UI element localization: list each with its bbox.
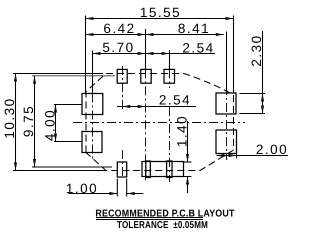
arrow 1.00 right	[127, 192, 135, 195]
dimension 1.00 right line	[127, 193, 144, 195]
dimension 10.30 bottom extension	[13, 170, 106, 172]
bottom narrow pad 2	[146, 161, 151, 178]
main horizontal centerline	[73, 122, 245, 124]
dimension 1.40 lower line	[187, 177, 189, 194]
arrow 5.70 left	[93, 52, 101, 55]
pad top-right	[216, 93, 236, 114]
arrow 15.55 left	[86, 17, 94, 20]
dimension 1.00 left line	[68, 193, 117, 195]
arrow 5.70 right	[138, 52, 146, 55]
column 1 lower centerline	[122, 150, 124, 177]
arrow 1.40 top	[186, 154, 189, 162]
dimension 15.55 left extension	[85, 16, 87, 94]
dimension 8.41 line	[146, 34, 224, 36]
pad bottom-left	[82, 132, 102, 153]
svg-text:2.54: 2.54	[182, 41, 214, 56]
dimension 4.00 top extension	[54, 104, 82, 106]
svg-text:4.00: 4.00	[42, 109, 57, 141]
column 3 centerline lower	[169, 107, 171, 182]
svg-text:1.40: 1.40	[175, 115, 190, 147]
dimension 9.75 bottom extension	[32, 166, 112, 168]
svg-text:5.70: 5.70	[102, 40, 134, 55]
dimension 5.70 line	[93, 53, 147, 55]
svg-text:8.41: 8.41	[178, 21, 210, 36]
arrow 4.00 bottom	[54, 134, 57, 142]
footer title underline rule 1	[96, 217, 203, 219]
column 1 centerline	[122, 66, 124, 110]
arrow 10.30 bottom	[14, 163, 17, 171]
column 3 centerline	[169, 69, 171, 88]
dimension 2.30 line	[262, 31, 264, 114]
arrow 2.54 mid left	[122, 105, 130, 108]
arrow 6.42 right	[138, 33, 146, 36]
svg-text:1.00: 1.00	[66, 181, 98, 196]
arrow 1.00 left	[109, 192, 117, 195]
svg-text:10.30: 10.30	[2, 97, 17, 138]
dimension 1.40 top extension	[184, 161, 192, 163]
dimension 2.54 top line	[146, 53, 215, 55]
dimension 15.55 line	[86, 18, 234, 20]
arrow 8.41 right	[216, 33, 224, 36]
right pads vertical centerline	[226, 86, 228, 160]
dimension 1.40 upper line	[187, 121, 189, 162]
dimension 9.75 line	[34, 76, 36, 167]
arrow 1.40 bottom	[186, 177, 189, 185]
top small pad 3	[164, 69, 175, 83]
svg-text:6.42: 6.42	[103, 21, 135, 36]
column 2 extension above	[145, 29, 147, 69]
dimension 2.54 middle line	[117, 106, 196, 108]
arrow 9.75 bottom	[33, 159, 36, 167]
arrow 2.30 top	[261, 94, 264, 102]
column 2 centerline	[145, 69, 147, 182]
svg-text:2.30: 2.30	[249, 34, 264, 66]
arrow 6.42 left	[86, 33, 94, 36]
top small pad 2	[141, 69, 151, 83]
bottom wide pad frame	[142, 162, 184, 177]
dimension 2.00 right extension	[236, 154, 238, 159]
arrow 2.00 right	[229, 154, 237, 157]
dimension 1.00 left extension	[116, 179, 118, 197]
dimension 4.00 bottom extension	[54, 141, 82, 143]
dimension 2.30 bottom extension	[240, 113, 266, 115]
dimension 10.30 top extension	[13, 73, 103, 75]
bottom narrow pad 3	[167, 161, 172, 178]
dimension 10.30 line	[15, 74, 17, 171]
arrow 2.00 left	[217, 154, 225, 157]
arrow 10.30 top	[14, 74, 17, 82]
dimension 8.41 right extension	[226, 32, 228, 94]
dimension 2.30 top extension	[240, 93, 266, 95]
footer title underline rule 2	[96, 219, 203, 221]
svg-text:TOLERANCE ±0.05MM: TOLERANCE ±0.05MM	[117, 220, 208, 231]
dimension 4.00 line	[55, 105, 57, 142]
column 3 extension above	[169, 50, 171, 69]
arrow 9.75 top	[33, 76, 36, 84]
svg-text:2.00: 2.00	[256, 142, 288, 157]
svg-text:9.75: 9.75	[21, 105, 36, 137]
arrow 2.54 top right	[162, 52, 170, 55]
dimension 15.55 right extension	[233, 16, 235, 94]
pad top-left	[82, 94, 103, 115]
left pads vertical centerline	[92, 94, 94, 161]
dimension 1.00 right extension	[126, 179, 128, 197]
arrow 8.41 left	[146, 33, 154, 36]
arrow 2.54 mid right	[138, 105, 146, 108]
dimension 5.70 left extension	[92, 51, 94, 94]
dimension 6.42 line	[86, 34, 147, 36]
arrow 15.55 right	[225, 17, 233, 20]
top small pad 1	[117, 69, 127, 83]
arrow 4.00 top	[54, 105, 57, 113]
dimension 9.75 top extension	[32, 75, 115, 77]
svg-text:15.55: 15.55	[140, 5, 181, 20]
svg-text:2.54: 2.54	[159, 93, 191, 108]
dimension 2.00 line	[217, 155, 289, 157]
component body outline (dashed oval)	[86, 74, 234, 171]
bottom small pad 1	[117, 162, 126, 177]
arrow 2.30 bottom	[261, 106, 264, 114]
pad bottom-right	[216, 130, 237, 154]
dimension 1.40 bottom extension	[184, 176, 192, 178]
arrow 2.54 top left	[146, 52, 154, 55]
